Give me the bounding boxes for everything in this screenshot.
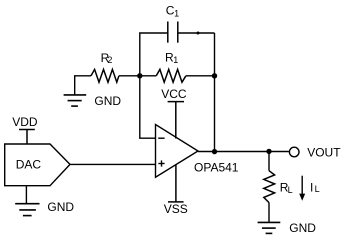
svg-text:1: 1 <box>174 9 179 19</box>
svg-text:GND: GND <box>94 94 121 108</box>
resistor R1 <box>156 69 186 82</box>
wire load bottom lead <box>268 203 270 223</box>
wire load top lead <box>268 151 270 170</box>
DAC block <box>5 144 70 186</box>
svg-text:VOUT: VOUT <box>307 146 341 160</box>
wire R1 right lead <box>186 75 215 77</box>
wire inverting input <box>140 76 156 138</box>
svg-text:DAC: DAC <box>16 158 42 172</box>
svg-text:VDD: VDD <box>12 115 38 129</box>
node right rail R1 <box>212 73 217 78</box>
wire right rail vertical <box>214 33 216 152</box>
ground under DAC <box>15 204 39 216</box>
svg-text:L: L <box>288 185 293 195</box>
svg-text:GND: GND <box>47 200 74 214</box>
wire DAC output to op-amp plus input <box>70 163 156 165</box>
capacitor C1 <box>168 22 178 43</box>
wire R2 to summing node <box>119 75 140 77</box>
svg-text:I: I <box>310 180 313 194</box>
svg-text:OPA541: OPA541 <box>194 160 239 174</box>
op-amp U1 OPA541 <box>156 125 199 178</box>
supply VSS bar <box>168 165 184 202</box>
ground under RL <box>258 222 281 233</box>
terminal VOUT <box>289 147 299 157</box>
supply VDD bar <box>19 130 35 145</box>
wire R2 left lead with corner to ground <box>75 76 91 95</box>
svg-text:2: 2 <box>107 55 112 65</box>
wire feedback top-left horizontal to C1 <box>140 33 168 76</box>
svg-text:VSS: VSS <box>164 202 188 216</box>
wire op-amp output <box>198 151 289 153</box>
wire DAC to ground <box>25 186 27 204</box>
supply VCC bar <box>168 102 184 139</box>
wire C1 right plate to right rail <box>178 32 215 34</box>
ground under R2 <box>64 95 87 106</box>
node on top wire <box>197 32 200 35</box>
node load branch <box>266 149 271 154</box>
node summing junction <box>137 73 142 78</box>
resistor RL <box>264 171 275 203</box>
svg-text:GND: GND <box>289 221 316 235</box>
node output feedback <box>212 149 217 154</box>
svg-text:1: 1 <box>173 55 178 65</box>
svg-text:L: L <box>315 184 320 194</box>
op-amp minus input sign <box>158 137 164 139</box>
svg-text:VCC: VCC <box>161 87 187 101</box>
wire R1 left lead <box>140 75 157 77</box>
op-amp plus input sign <box>158 163 164 165</box>
resistor R2 <box>91 69 119 82</box>
current arrow IL <box>301 176 303 195</box>
